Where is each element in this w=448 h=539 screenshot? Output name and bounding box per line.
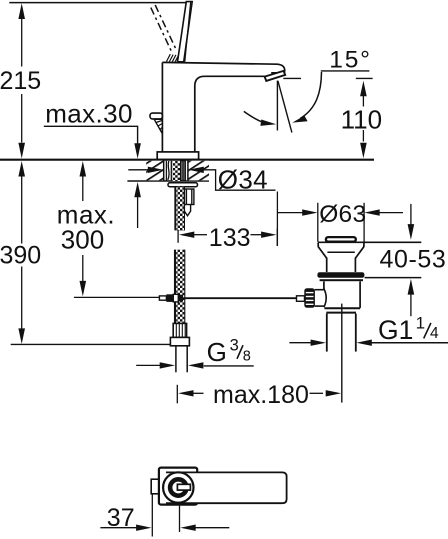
base plate xyxy=(157,152,198,160)
faucet spout underside xyxy=(195,76,265,152)
spout plumb line upper xyxy=(276,81,278,131)
dimension max.180 xyxy=(177,385,341,404)
countertop line xyxy=(0,159,374,161)
dimension max.300 vertical line xyxy=(82,176,84,282)
svg-text:Ø63: Ø63 xyxy=(319,201,366,228)
aerator (tilted outlet) xyxy=(265,71,286,81)
svg-text:133: 133 xyxy=(209,224,251,252)
dimension 215 arrow up xyxy=(18,3,25,19)
swing arc right with arrow xyxy=(292,72,321,123)
swing arc left with arrow xyxy=(244,111,276,126)
mounting nut xyxy=(184,189,194,216)
washer piece right of shank in hole xyxy=(181,161,186,181)
G3/8 thread tube xyxy=(176,346,187,373)
hose ferrule xyxy=(173,323,186,337)
bottom view: G bar xyxy=(177,484,190,490)
mounting hole left edge xyxy=(163,161,165,182)
dimension 215 vertical line xyxy=(21,19,23,143)
svg-text:300: 300 xyxy=(61,225,104,255)
G3/8 dimension arrows xyxy=(136,362,203,368)
G3/8 underline xyxy=(204,365,254,367)
dimension 37 arrows xyxy=(100,525,229,531)
threaded shank through counter (checkered) xyxy=(173,161,181,181)
dimension Ø34 left arrow xyxy=(128,167,163,173)
pop-up rod clamp xyxy=(159,294,183,302)
counter hatch right block xyxy=(188,161,209,181)
dimension 133 xyxy=(178,229,277,246)
dimension G1 1/4 right arrow and underline to edge xyxy=(356,340,448,346)
knurled knob connector xyxy=(315,290,324,306)
svg-text:3: 3 xyxy=(230,336,239,354)
pop-up knob wedge with hatching xyxy=(154,119,162,133)
drain O-ring seal xyxy=(317,272,364,281)
dimension 390 arrow up xyxy=(18,161,25,177)
bottom view: lever bar xyxy=(166,472,287,503)
max.30 lower arrow up to counter bottom xyxy=(134,182,141,228)
max.300 arrow up xyxy=(80,161,87,177)
svg-text:G: G xyxy=(207,337,227,367)
svg-text:15°: 15° xyxy=(329,47,371,74)
max.30 underline and leader xyxy=(44,126,138,144)
max.30 arrow down to countertop xyxy=(134,143,141,158)
pop-up rod left reference xyxy=(183,297,297,299)
390 bottom reference line xyxy=(11,343,171,345)
drain body left bulge xyxy=(324,289,326,308)
dimension 390 vertical line xyxy=(21,176,23,329)
top reference line (lever top level) xyxy=(9,2,190,4)
lever handle (upright) xyxy=(178,2,193,62)
svg-text:215: 215 xyxy=(0,67,41,95)
drain tailpipe xyxy=(327,314,356,352)
lever pivot hatch marks xyxy=(167,54,179,62)
pop-up rod knob (side view) xyxy=(150,113,162,119)
counter bottom line xyxy=(127,180,209,182)
dimension G1 1/4 left arrow line xyxy=(289,340,326,346)
dimension 37 extension lines xyxy=(152,494,179,537)
svg-text:110: 110 xyxy=(341,104,382,134)
svg-text:max.30: max.30 xyxy=(45,98,133,128)
bottom view: body square xyxy=(159,468,197,505)
outlet level line left segment xyxy=(283,77,301,79)
bottom view: G ring xyxy=(170,479,186,495)
G3/8 connector nut xyxy=(170,337,189,345)
15 degree stream line xyxy=(278,81,292,133)
expansion cone piece in hole xyxy=(166,161,171,181)
label G3/8 xyxy=(207,336,251,367)
svg-text:40-53: 40-53 xyxy=(380,246,447,274)
dimension 40-53 xyxy=(365,204,422,316)
horseshoe washer under counter xyxy=(168,183,198,187)
drain centerline xyxy=(341,304,343,403)
lever handle alternate position (dash-dot) xyxy=(151,5,177,53)
max.300 arrow down xyxy=(80,281,87,297)
drain flange sides xyxy=(318,243,364,259)
label G1 1/4 xyxy=(378,314,439,345)
dimension 110 xyxy=(360,81,367,159)
spout plumb line lower xyxy=(276,192,278,247)
mounting hole right edge xyxy=(187,161,189,182)
svg-text:max.180: max.180 xyxy=(213,381,309,409)
bottom view: left tab xyxy=(151,479,159,494)
svg-text:G1: G1 xyxy=(378,315,413,345)
threaded shank below counter (checkered) xyxy=(175,187,184,231)
pop-up drain valve: Ø63 extension lines xyxy=(318,203,364,242)
svg-text:37: 37 xyxy=(107,504,135,532)
dimension Ø63 arrows xyxy=(278,209,403,215)
svg-text:Ø34: Ø34 xyxy=(218,165,268,195)
dimension 215 arrow down xyxy=(18,143,25,159)
dimension 390 arrow down xyxy=(18,328,25,344)
svg-text:8: 8 xyxy=(243,348,251,364)
drain neck seam xyxy=(327,251,354,253)
max.300 bottom reference line xyxy=(74,296,159,298)
counter hatch left block xyxy=(146,161,163,181)
svg-text:1: 1 xyxy=(416,314,425,333)
drain lower body xyxy=(324,281,360,308)
outlet level line right segment xyxy=(356,77,373,79)
svg-text:390: 390 xyxy=(0,242,41,270)
bottom view: outer circle xyxy=(163,472,193,502)
dimension Ø34 right arrow and leader xyxy=(188,167,275,191)
drain neck body xyxy=(327,258,356,273)
knurled knob xyxy=(304,288,315,307)
flexible hose (braided) xyxy=(175,250,185,324)
15 degree underline xyxy=(321,70,370,72)
faucet body xyxy=(162,62,284,151)
drain flange top line with 40-53 extension xyxy=(318,241,421,243)
drain plug cap xyxy=(326,237,356,242)
svg-text:4: 4 xyxy=(430,325,439,342)
drain step band xyxy=(324,308,360,312)
